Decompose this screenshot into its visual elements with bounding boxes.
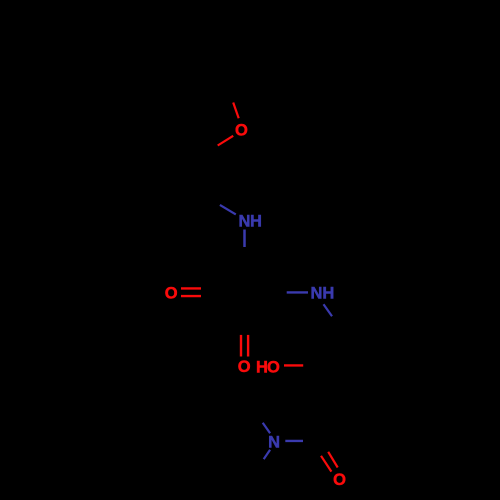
svg-text:O: O — [235, 121, 248, 139]
svg-text:N: N — [238, 213, 250, 231]
svg-text:O: O — [238, 358, 251, 376]
svg-text:N: N — [310, 285, 322, 303]
svg-text:H: H — [322, 285, 334, 303]
svg-text:O: O — [267, 358, 280, 376]
svg-text:N: N — [268, 434, 280, 452]
svg-text:H: H — [250, 213, 262, 231]
svg-text:O: O — [165, 285, 178, 303]
svg-text:O: O — [333, 471, 346, 489]
